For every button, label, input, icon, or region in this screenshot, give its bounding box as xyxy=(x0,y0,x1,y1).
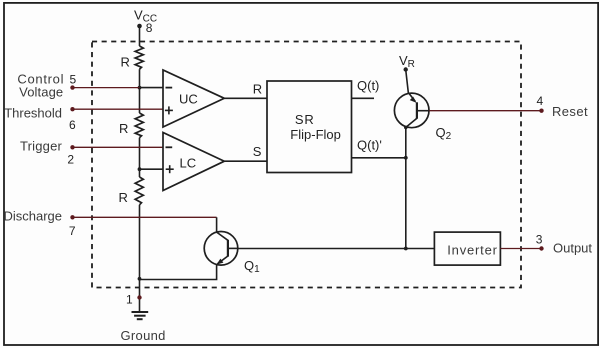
svg-text:Inverter: Inverter xyxy=(447,242,497,257)
wire pin 2 Trigger to LC inverting input (red) xyxy=(73,146,164,148)
Vr terminal xyxy=(404,67,408,71)
wire R3 to ground rail xyxy=(139,205,141,312)
pin 5 Control Voltage label xyxy=(17,72,64,100)
wire R2 to R3 xyxy=(139,138,141,177)
node: control-voltage junction xyxy=(138,86,142,90)
wire divider junction to LC non-inverting input xyxy=(140,168,164,170)
SR flip-flop block xyxy=(267,81,352,173)
wire Vcc to R1 xyxy=(139,26,141,46)
pin 3 terminal xyxy=(539,246,543,250)
node: Q2 collector junction xyxy=(404,126,408,130)
wire Q1 base / Q(t)' to inverter input xyxy=(238,248,435,250)
svg-text:R: R xyxy=(119,121,128,136)
op-amp UC (upper comparator) xyxy=(163,70,224,127)
wire Q2 collector down to inverter wire xyxy=(405,127,407,248)
wire Q1 emitter to ground rail xyxy=(140,265,217,280)
node: Q(t)' junction xyxy=(404,156,408,160)
svg-text:1: 1 xyxy=(126,292,133,306)
pin 6 terminal xyxy=(70,107,74,111)
svg-text:S: S xyxy=(253,144,262,159)
svg-text:Voltage: Voltage xyxy=(19,85,63,100)
node: lower-comparator reference junction xyxy=(138,167,142,171)
svg-text:R: R xyxy=(253,82,262,97)
wire pin 3 Output (red) xyxy=(500,248,541,250)
svg-text:6: 6 xyxy=(69,118,76,132)
svg-text:8: 8 xyxy=(146,21,153,35)
wire Q(t)' output to junction xyxy=(352,157,406,159)
wire pin 6 Threshold to UC non-inverting input (red) xyxy=(73,108,164,110)
transistor Q2 xyxy=(394,70,429,128)
svg-text:SR: SR xyxy=(295,112,315,127)
svg-text:UC: UC xyxy=(179,91,198,106)
node: inverter input junction xyxy=(404,247,408,251)
ground symbol xyxy=(132,312,149,319)
wire divider node to UC inverting input xyxy=(140,87,164,89)
op-amp LC (lower comparator) xyxy=(163,133,224,191)
resistor R3 xyxy=(135,177,143,205)
wire LC output to SR flip-flop (node S) xyxy=(224,160,267,162)
svg-text:R: R xyxy=(119,190,128,205)
svg-text:Discharge: Discharge xyxy=(3,208,62,223)
resistor R1 xyxy=(135,46,143,69)
pin 1 terminal xyxy=(126,292,142,306)
wire pin 7 Discharge to Q1 collector (red) xyxy=(73,216,217,218)
node: ground-rail junction xyxy=(138,277,142,281)
wire pin 4 Reset (red) xyxy=(429,110,541,112)
svg-text:Q(t): Q(t) xyxy=(357,78,379,93)
svg-text:Threshold: Threshold xyxy=(4,106,62,121)
IC package boundary (dashed) xyxy=(92,42,521,288)
svg-text:2: 2 xyxy=(67,153,74,167)
wire pin 5 to divider node (red) xyxy=(73,87,140,89)
svg-text:LC: LC xyxy=(180,155,197,170)
svg-text:Ground: Ground xyxy=(121,328,166,343)
inverter block xyxy=(434,232,500,265)
svg-text:R: R xyxy=(121,55,130,70)
svg-text:4: 4 xyxy=(537,94,544,108)
svg-text:Q(t)': Q(t)' xyxy=(357,138,382,153)
svg-text:Trigger: Trigger xyxy=(20,139,63,154)
pin 2 terminal xyxy=(70,145,74,149)
resistor R2 xyxy=(135,113,143,138)
pin 8 terminal xyxy=(137,21,153,35)
pin 4 terminal xyxy=(539,109,543,113)
wire R1 to R2 xyxy=(139,69,141,113)
wire Q1 collector vertical xyxy=(216,217,218,232)
pin 7 terminal xyxy=(70,215,74,219)
svg-text:7: 7 xyxy=(69,224,76,238)
svg-text:Reset: Reset xyxy=(552,104,588,119)
pin 5 terminal xyxy=(70,85,74,89)
svg-text:Flip-Flop: Flip-Flop xyxy=(290,127,341,142)
svg-text:Output: Output xyxy=(553,241,592,256)
wire UC output to SR flip-flop (node R) xyxy=(224,97,267,99)
transistor Q1 xyxy=(204,232,238,266)
svg-text:5: 5 xyxy=(70,72,77,86)
wire Q(t) output stub xyxy=(352,97,375,99)
svg-text:3: 3 xyxy=(536,233,543,247)
